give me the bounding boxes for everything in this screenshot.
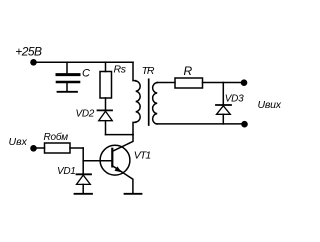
- wire bottom output rail: [157, 123, 244, 125]
- svg-text:VD2: VD2: [76, 108, 95, 119]
- svg-text:C: C: [82, 68, 90, 80]
- resistor Rs: [100, 72, 112, 99]
- svg-text:+25В: +25В: [15, 45, 42, 59]
- wire top rail from +25V dot to transformer primary: [34, 61, 134, 63]
- ground bar under VD1: [75, 193, 93, 195]
- wire emitter diagonal and down: [112, 166, 132, 193]
- svg-text:R: R: [184, 64, 193, 78]
- svg-text:VT1: VT1: [134, 150, 151, 162]
- wire input dot to Robm: [34, 147, 45, 149]
- wire secondary top to R: [157, 82, 175, 84]
- wire VD1 lead down: [82, 184, 84, 193]
- transformer TR primary winding: [133, 62, 140, 134]
- node input dot: [30, 145, 37, 152]
- node output plus dot: [241, 79, 248, 86]
- wire R to output plus terminal: [203, 82, 245, 84]
- emitter arrow: [115, 166, 122, 172]
- diode VD2 triangle: [99, 111, 113, 121]
- wire resistor Rs top lead: [105, 62, 107, 71]
- svg-text:VD1: VD1: [57, 166, 76, 177]
- svg-text:Rs: Rs: [114, 64, 127, 76]
- wire bottom rail VD2 to collector junction: [106, 134, 134, 136]
- diode VD1 cathode bar: [77, 173, 92, 175]
- diode VD3 triangle: [217, 106, 231, 115]
- wire Robm to corner: [70, 147, 83, 149]
- svg-text:Uвих: Uвих: [258, 99, 282, 111]
- wire VD2 anode lead down: [105, 121, 107, 135]
- node +25V terminal dot: [30, 59, 37, 66]
- wire VD3 anode to bottom rail: [222, 114, 224, 124]
- capacitor C top plate: [57, 73, 79, 76]
- wire capacitor bottom lead: [66, 83, 68, 91]
- transistor VT1 circle: [100, 145, 130, 175]
- wire corner down to VD1: [82, 148, 84, 174]
- capacitor C bottom plate: [57, 81, 79, 84]
- transformer core: [148, 79, 150, 125]
- diode VD1 triangle: [77, 175, 91, 184]
- transformer TR secondary winding: [153, 83, 158, 125]
- resistor R: [175, 78, 203, 88]
- node output minus dot: [241, 121, 248, 128]
- ground bar under emitter: [125, 193, 142, 195]
- wire base tee to transistor: [83, 160, 112, 162]
- wire VD3 top lead: [222, 83, 224, 105]
- ground bar under capacitor: [58, 91, 78, 93]
- transistor VT1 base bar: [111, 149, 113, 167]
- resistor Robm: [45, 143, 71, 153]
- svg-text:Rобм: Rобм: [44, 131, 69, 143]
- diode VD2 cathode bar: [98, 109, 113, 111]
- svg-text:VD3: VD3: [225, 94, 244, 105]
- wire capacitor top lead: [66, 62, 68, 73]
- wire Rs to VD2: [105, 98, 107, 110]
- svg-text:TR: TR: [142, 65, 155, 77]
- svg-text:Uвх: Uвх: [9, 136, 28, 148]
- wire collector from bottom rail: [113, 135, 134, 152]
- diode VD3 cathode bar: [216, 104, 231, 106]
